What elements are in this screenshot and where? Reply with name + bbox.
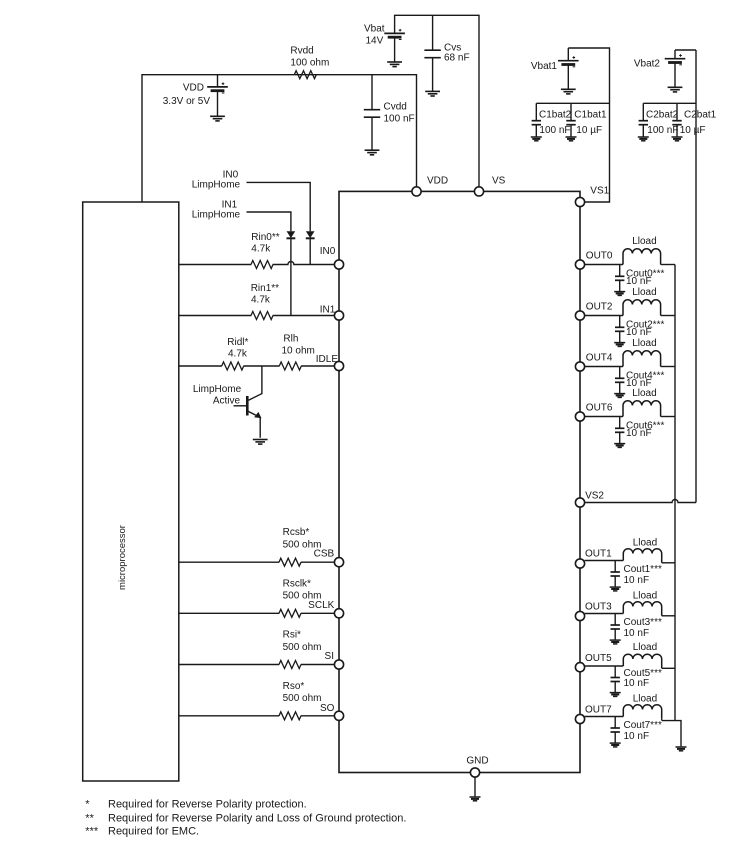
svg-text:VS1: VS1 bbox=[590, 185, 609, 196]
wire Vbat1 battery stub bbox=[567, 48, 569, 89]
svg-text:Rin0**: Rin0** bbox=[251, 232, 279, 243]
pin GND bbox=[470, 768, 479, 777]
svg-text:IN0: IN0 bbox=[320, 246, 336, 257]
wire IN1 row bbox=[179, 315, 335, 317]
wire C2bat2 stub bbox=[642, 103, 644, 136]
resistor Rlh bbox=[279, 362, 301, 370]
pin OUT6 bbox=[575, 412, 584, 421]
svg-text:OUT4: OUT4 bbox=[586, 352, 613, 363]
svg-text:10 ohm: 10 ohm bbox=[282, 346, 315, 357]
wire OUT6 row bbox=[585, 416, 623, 418]
svg-text:Lload: Lload bbox=[632, 236, 656, 247]
svg-text:Rvdd: Rvdd bbox=[290, 46, 313, 57]
wire load bus vertical bbox=[674, 265, 676, 721]
wire Vbat2 battery stub bbox=[674, 50, 676, 87]
svg-text:LimpHome: LimpHome bbox=[192, 179, 241, 190]
svg-text:4.7k: 4.7k bbox=[251, 243, 271, 254]
ground under C2bat1 bbox=[672, 137, 683, 141]
svg-text:*: * bbox=[85, 799, 90, 811]
wire Cout1 stub bbox=[614, 561, 616, 588]
diode D2 (IN0 LimpHome) bbox=[306, 231, 315, 238]
wire diode D2 cathode to IN0 row bbox=[309, 238, 311, 264]
capacitor Cout0 bbox=[615, 276, 624, 280]
wire VDD battery stub bbox=[217, 75, 219, 117]
ground under Cout4 bbox=[614, 394, 625, 398]
svg-text:Ridl*: Ridl* bbox=[227, 337, 248, 348]
svg-text:100 ohm: 100 ohm bbox=[290, 58, 329, 69]
wire Cout7 stub bbox=[614, 717, 616, 744]
svg-text:Lload: Lload bbox=[633, 538, 657, 549]
svg-text:Cout1***: Cout1*** bbox=[624, 564, 662, 575]
wire OUT1 row bbox=[585, 560, 624, 562]
svg-text:Required for Reverse Polarity: Required for Reverse Polarity protection… bbox=[108, 799, 307, 811]
svg-text:**: ** bbox=[85, 813, 94, 825]
svg-text:10 µF: 10 µF bbox=[680, 125, 706, 136]
wire Vbat2 rail bbox=[675, 49, 696, 51]
ground under Vbat2 bbox=[668, 87, 683, 92]
microprocessor box bbox=[83, 202, 179, 781]
wire OUT2 row bbox=[585, 315, 623, 317]
svg-text:OUT1: OUT1 bbox=[585, 549, 612, 560]
ground under C1bat1 bbox=[566, 137, 577, 141]
svg-text:OUT7: OUT7 bbox=[585, 705, 612, 716]
capacitor Cout1 bbox=[611, 572, 620, 576]
wire IN0 LimpHome feed bbox=[247, 182, 311, 231]
ground under Cout3 bbox=[610, 640, 621, 644]
capacitor C2bat2 bbox=[639, 121, 648, 125]
svg-text:C1bat1: C1bat1 bbox=[574, 110, 607, 121]
svg-text:Lload: Lload bbox=[632, 287, 656, 298]
battery Vbat1 bbox=[558, 56, 579, 67]
wire Cout3 stub bbox=[614, 614, 616, 641]
svg-text:10 nF: 10 nF bbox=[624, 678, 650, 689]
svg-text:SI: SI bbox=[325, 651, 334, 662]
pin SCLK bbox=[334, 609, 343, 618]
inductor Lload OUT3 bbox=[623, 602, 661, 616]
ground under GND pin bbox=[470, 797, 481, 801]
svg-text:GND: GND bbox=[466, 756, 488, 767]
ground under Vbat bbox=[387, 62, 402, 67]
ground under VDD battery bbox=[210, 116, 225, 121]
pin VS1 bbox=[575, 197, 584, 206]
svg-text:Rcsb*: Rcsb* bbox=[283, 527, 310, 538]
wire Cout4 stub bbox=[619, 367, 621, 394]
pin VS2 bbox=[575, 498, 584, 507]
svg-text:OUT3: OUT3 bbox=[585, 602, 612, 613]
svg-text:100 nF: 100 nF bbox=[647, 125, 678, 136]
battery Vbat 14V bbox=[384, 29, 405, 40]
battery Vbat2 bbox=[665, 54, 686, 65]
inductor Lload OUT4 bbox=[623, 351, 661, 367]
svg-text:microprocessor: microprocessor bbox=[117, 525, 128, 590]
pin IN0 bbox=[334, 260, 343, 269]
pin OUT3 bbox=[575, 611, 584, 620]
svg-text:Rsi*: Rsi* bbox=[283, 630, 301, 641]
svg-text:10 nF: 10 nF bbox=[626, 327, 652, 338]
wire OUT2 load jog bbox=[661, 315, 675, 317]
svg-text:Required for Reverse Polarity: Required for Reverse Polarity and Loss o… bbox=[108, 813, 406, 825]
diode D1 (IN1 LimpHome) bbox=[287, 231, 296, 238]
resistor Ridl bbox=[222, 362, 244, 370]
wire transistor base lead bbox=[234, 405, 247, 407]
pin SO bbox=[334, 711, 343, 720]
resistor Rvdd bbox=[294, 71, 316, 79]
svg-text:VDD: VDD bbox=[183, 83, 204, 94]
svg-text:OUT5: OUT5 bbox=[585, 653, 612, 664]
svg-text:Rso*: Rso* bbox=[283, 681, 305, 692]
ground under Vbat1 bbox=[561, 89, 576, 94]
pin OUT0 bbox=[575, 260, 584, 269]
svg-text:10 nF: 10 nF bbox=[626, 276, 652, 287]
svg-text:IDLE: IDLE bbox=[316, 354, 339, 365]
svg-text:SCLK: SCLK bbox=[308, 600, 334, 611]
svg-text:10 nF: 10 nF bbox=[624, 575, 650, 586]
wire VS2 row with hop bbox=[585, 500, 696, 503]
ground under C2bat2 bbox=[638, 137, 649, 141]
capacitor C1bat2 bbox=[532, 121, 541, 125]
svg-text:Vbat: Vbat bbox=[364, 24, 385, 35]
inductor Lload OUT6 bbox=[623, 401, 661, 417]
svg-text:100 nF: 100 nF bbox=[539, 125, 570, 136]
pin OUT7 bbox=[575, 714, 584, 723]
svg-text:Lload: Lload bbox=[633, 642, 657, 653]
ground under Cvdd bbox=[365, 150, 380, 155]
svg-text:10 nF: 10 nF bbox=[624, 628, 650, 639]
pin IDLE bbox=[334, 361, 343, 370]
wire Cout5 stub bbox=[614, 666, 616, 693]
svg-text:VDD: VDD bbox=[427, 175, 448, 186]
wire Vbat2 vertical to VS2 row bbox=[695, 50, 697, 503]
pin VS bbox=[474, 187, 483, 196]
ground under Cvs bbox=[425, 91, 440, 96]
wire Cout6 stub bbox=[619, 417, 621, 444]
wire SO row bbox=[179, 715, 335, 717]
svg-text:Lload: Lload bbox=[633, 694, 657, 705]
wire Cvs stub bbox=[432, 15, 434, 91]
capacitor Cvdd bbox=[364, 110, 380, 118]
wire CSB row bbox=[179, 561, 335, 563]
wire C1bat2 stub bbox=[535, 103, 537, 136]
wire Cvdd stub bbox=[371, 75, 373, 150]
svg-text:Lload: Lload bbox=[632, 338, 656, 349]
svg-text:Rin1**: Rin1** bbox=[251, 283, 279, 294]
wire GND pin to ground bbox=[474, 773, 476, 797]
wire OUT5 load jog bbox=[662, 667, 675, 669]
svg-text:Required for EMC.: Required for EMC. bbox=[108, 825, 199, 837]
svg-text:10 µF: 10 µF bbox=[576, 125, 602, 136]
pin SI bbox=[334, 660, 343, 669]
svg-text:C2bat1: C2bat1 bbox=[684, 109, 717, 120]
svg-text:C1bat2: C1bat2 bbox=[539, 110, 572, 121]
wire IDLE row bbox=[179, 365, 335, 367]
wire OUT0 row bbox=[585, 264, 623, 266]
wire C1bat1 stub bbox=[570, 103, 572, 136]
ground under Cout7 bbox=[610, 743, 621, 747]
wire Vbat1 rail to VS1 pin bbox=[568, 48, 609, 202]
wire OUT0 load jog bbox=[661, 264, 675, 266]
svg-text:500 ohm: 500 ohm bbox=[283, 642, 322, 653]
capacitor Cout2 bbox=[615, 327, 624, 331]
wire OUT7 load jog bbox=[661, 719, 663, 721]
pin OUT4 bbox=[575, 362, 584, 371]
ground under Cout2 bbox=[614, 343, 625, 347]
svg-text:Rlh: Rlh bbox=[283, 334, 298, 345]
svg-text:Vbat1: Vbat1 bbox=[531, 61, 558, 72]
wire C1bat rail bbox=[536, 102, 609, 104]
svg-text:IN1: IN1 bbox=[320, 305, 336, 316]
transistor Q1 NPN bbox=[247, 396, 261, 418]
svg-text:Cvdd: Cvdd bbox=[384, 102, 407, 113]
wire OUT3 load jog bbox=[662, 615, 675, 617]
svg-text:CSB: CSB bbox=[314, 549, 335, 560]
capacitor Cout5 bbox=[611, 678, 620, 682]
resistor Rso bbox=[279, 712, 301, 720]
wire Cout0 stub bbox=[619, 265, 621, 292]
pin VDD bbox=[412, 187, 421, 196]
pin OUT1 bbox=[575, 559, 584, 568]
ground under C1bat2 bbox=[531, 137, 542, 141]
capacitor Cout6 bbox=[615, 428, 624, 432]
capacitor C2bat1 bbox=[672, 121, 681, 125]
svg-text:VS2: VS2 bbox=[585, 490, 604, 501]
svg-text:Cout7***: Cout7*** bbox=[624, 720, 662, 731]
resistor Rin0 bbox=[251, 261, 273, 269]
wire OUT4 row bbox=[585, 366, 623, 368]
wire C2bat rail bbox=[643, 102, 696, 104]
wire transistor collector tap bbox=[249, 366, 262, 400]
resistor Rsi bbox=[279, 661, 301, 669]
capacitor Cout7 bbox=[611, 728, 620, 732]
svg-text:Cout3***: Cout3*** bbox=[624, 617, 662, 628]
svg-text:C2bat2: C2bat2 bbox=[646, 110, 679, 121]
IC U1 box bbox=[339, 191, 580, 772]
pin CSB bbox=[334, 558, 343, 567]
svg-text:LimpHome: LimpHome bbox=[192, 210, 241, 221]
svg-text:10 nF: 10 nF bbox=[624, 731, 650, 742]
battery VDD 3.3V or 5V bbox=[207, 82, 228, 93]
svg-text:14V: 14V bbox=[366, 36, 384, 47]
svg-text:Lload: Lload bbox=[632, 388, 656, 399]
inductor Lload OUT7 bbox=[623, 705, 661, 719]
capacitor Cvs bbox=[424, 50, 440, 58]
inductor Lload OUT2 bbox=[623, 300, 661, 316]
wire diode D1 cathode to IN1 row bbox=[290, 238, 292, 315]
resistor Rsclk bbox=[279, 609, 301, 617]
wire OUT7 row bbox=[585, 716, 624, 718]
wire SCLK row bbox=[179, 612, 335, 614]
svg-text:OUT6: OUT6 bbox=[586, 402, 613, 413]
svg-text:SO: SO bbox=[320, 703, 335, 714]
wire Vbat battery to ground bbox=[394, 37, 396, 62]
inductor Lload OUT0 bbox=[623, 249, 661, 265]
resistor Rin1 bbox=[251, 312, 273, 320]
wire Cout2 stub bbox=[619, 316, 621, 343]
svg-text:Rsclk*: Rsclk* bbox=[283, 578, 311, 589]
ground under Cout1 bbox=[610, 587, 621, 591]
wire OUT3 row bbox=[585, 613, 624, 615]
svg-text:LimpHome: LimpHome bbox=[193, 384, 242, 395]
ground under Cout5 bbox=[610, 693, 621, 697]
svg-text:OUT2: OUT2 bbox=[586, 301, 613, 312]
pin OUT5 bbox=[575, 663, 584, 672]
wire OUT5 row bbox=[585, 665, 624, 667]
resistor Rcsb bbox=[279, 558, 301, 566]
wire C2bat1 stub bbox=[676, 103, 678, 136]
wire transistor emitter to ground bbox=[259, 417, 261, 437]
svg-text:68 nF: 68 nF bbox=[444, 53, 470, 64]
svg-text:Vbat2: Vbat2 bbox=[634, 59, 661, 70]
wire OUT4 load jog bbox=[661, 366, 675, 368]
svg-text:Lload: Lload bbox=[633, 591, 657, 602]
wire SI row bbox=[179, 664, 335, 666]
svg-text:***: *** bbox=[85, 825, 99, 837]
wire load bus bottom to ground bbox=[662, 721, 681, 747]
wire Vbat rail to VS pin bbox=[395, 15, 479, 191]
svg-text:OUT0: OUT0 bbox=[586, 250, 613, 261]
svg-text:VS: VS bbox=[492, 175, 506, 186]
wire IN1 LimpHome feed bbox=[247, 212, 291, 231]
ground under Cout0 bbox=[614, 292, 625, 296]
wire IN0 row with hop bbox=[179, 262, 335, 265]
wire VDD rail: microprocessor to VDD pin bbox=[142, 75, 417, 202]
pin IN1 bbox=[334, 311, 343, 320]
ground at load bus bottom bbox=[676, 747, 687, 751]
wire OUT6 load jog bbox=[661, 416, 675, 418]
ground under Cout6 bbox=[614, 444, 625, 448]
svg-text:100 nF: 100 nF bbox=[384, 113, 415, 124]
capacitor Cout3 bbox=[611, 625, 620, 629]
svg-text:10 nF: 10 nF bbox=[626, 428, 652, 439]
svg-text:4.7k: 4.7k bbox=[228, 349, 248, 360]
wire OUT1 load jog bbox=[662, 562, 675, 564]
inductor Lload OUT5 bbox=[623, 654, 661, 668]
capacitor C1bat1 bbox=[566, 121, 575, 125]
capacitor Cout4 bbox=[615, 378, 624, 382]
svg-text:3.3V or 5V: 3.3V or 5V bbox=[163, 96, 211, 107]
pin OUT2 bbox=[575, 311, 584, 320]
svg-text:4.7k: 4.7k bbox=[251, 294, 271, 305]
svg-text:500 ohm: 500 ohm bbox=[283, 693, 322, 704]
inductor Lload OUT1 bbox=[623, 549, 661, 563]
ground under Q1 emitter bbox=[253, 440, 268, 445]
svg-text:Active: Active bbox=[213, 396, 241, 407]
